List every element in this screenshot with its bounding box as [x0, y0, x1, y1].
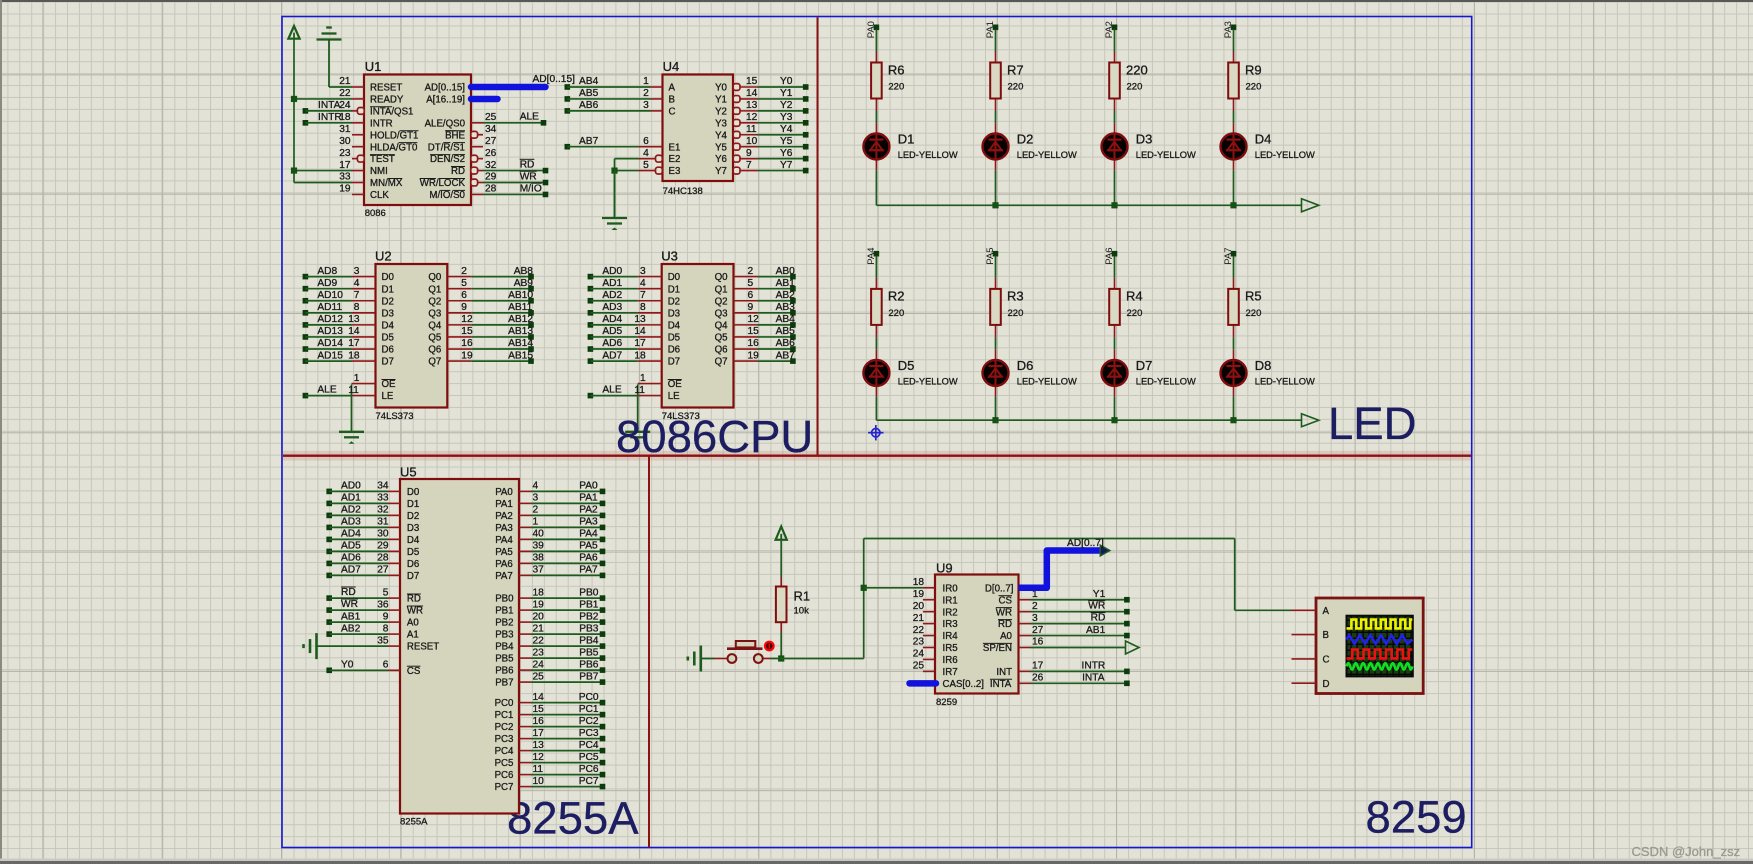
terminals+wires PB0-PB7 (U5 right)	[531, 587, 605, 685]
svg-text:34: 34	[377, 481, 389, 492]
U1 bus pin names	[425, 83, 465, 131]
net label PA2 (rotated)	[1104, 21, 1115, 38]
svg-text:AD13: AD13	[317, 326, 343, 337]
U4 right pins	[715, 76, 758, 177]
svg-text:11: 11	[634, 385, 645, 396]
svg-text:PB5: PB5	[579, 647, 599, 658]
svg-text:C: C	[1323, 655, 1330, 666]
svg-text:AD9: AD9	[317, 278, 337, 289]
led D5 (LED-YELLOW)	[863, 360, 889, 386]
svg-text:D4: D4	[668, 320, 681, 331]
scope trace red	[1347, 650, 1413, 659]
svg-text:AB1: AB1	[1086, 625, 1106, 636]
svg-text:PC3: PC3	[495, 734, 514, 745]
net label ALE (U3)	[602, 385, 621, 396]
D7 value label LED-YELLOW	[1136, 377, 1196, 387]
svg-text:4: 4	[643, 148, 649, 159]
svg-text:17: 17	[634, 338, 646, 349]
svg-text:220: 220	[1127, 82, 1143, 93]
svg-text:IR2: IR2	[943, 607, 958, 618]
svg-text:1: 1	[354, 373, 360, 384]
wire D6 to bus	[995, 397, 997, 421]
svg-text:Y3: Y3	[715, 118, 727, 129]
svg-text:Q0: Q0	[715, 272, 729, 283]
net label ALE	[520, 112, 539, 123]
U3 ref label	[661, 248, 678, 263]
svg-text:PC4: PC4	[495, 746, 514, 757]
ground (U2)	[339, 396, 364, 444]
svg-text:RD: RD	[1091, 613, 1106, 624]
U4 value label 74HC138	[663, 186, 703, 197]
svg-text:17: 17	[533, 728, 545, 739]
switch red indicator dot	[764, 641, 775, 652]
terminal RD	[543, 168, 549, 174]
junction bus row1 col2	[1111, 202, 1117, 208]
power VCC arrow (U1)	[288, 26, 299, 39]
svg-text:PC0: PC0	[495, 698, 514, 709]
svg-text:37: 37	[533, 565, 545, 576]
wire PA4 down	[875, 256, 877, 278]
svg-text:PB0: PB0	[579, 587, 599, 598]
wire INT	[1031, 669, 1130, 675]
wire U4 gnd vertical	[614, 159, 616, 218]
svg-text:26: 26	[485, 148, 497, 159]
svg-text:10k: 10k	[794, 605, 810, 616]
svg-text:AB1: AB1	[776, 278, 796, 289]
svg-text:LED-YELLOW: LED-YELLOW	[1017, 377, 1077, 387]
wire SP/EN	[1031, 647, 1126, 649]
resistor 220 pins	[1114, 52, 1116, 112]
terminal M/IO	[543, 192, 549, 198]
svg-text:R3: R3	[1007, 289, 1024, 304]
switch pins	[714, 658, 770, 660]
wire D7 to bus	[1114, 397, 1116, 421]
net label PA0 (rotated)	[866, 21, 877, 38]
D8 value label LED-YELLOW	[1255, 377, 1315, 387]
svg-text:11: 11	[746, 124, 757, 135]
svg-text:AD1: AD1	[602, 278, 622, 289]
svg-text:PA7: PA7	[495, 571, 513, 582]
svg-text:30: 30	[339, 136, 351, 147]
svg-text:7: 7	[354, 290, 360, 301]
wire R9 to D4	[1233, 111, 1235, 123]
svg-text:5: 5	[461, 278, 467, 289]
U9 left pins IR0-IR7 + CAS	[913, 577, 984, 690]
U5 right pins PB0-PB7	[495, 587, 544, 688]
svg-text:6: 6	[748, 290, 754, 301]
op U1 body (8086 CPU)	[364, 75, 471, 206]
svg-text:PC6: PC6	[495, 770, 514, 781]
led D6 (LED-YELLOW)	[983, 360, 1009, 386]
origin marker (blue crosshair)	[868, 425, 883, 440]
220 ref label	[1126, 62, 1148, 77]
wire PA1 down	[995, 29, 997, 51]
R3 value label	[1008, 308, 1024, 319]
svg-text:35: 35	[377, 635, 389, 646]
svg-text:3: 3	[533, 493, 539, 504]
U9 right pins CS/WR/RD/A0 + wires	[996, 589, 1130, 642]
svg-text:3: 3	[643, 100, 649, 111]
svg-text:15: 15	[461, 326, 473, 337]
U5 control pins RD/WR/A0/A1	[326, 587, 423, 641]
wire PA3 down	[1233, 29, 1235, 51]
wire R7 to D2	[995, 111, 997, 123]
latch U2 body (74LS373)	[376, 264, 448, 408]
svg-text:Y7: Y7	[780, 160, 793, 171]
svg-text:AB2: AB2	[776, 290, 796, 301]
svg-text:U5: U5	[400, 464, 417, 479]
svg-text:Q4: Q4	[428, 320, 442, 331]
D4 value label LED-YELLOW	[1255, 150, 1315, 160]
svg-text:4: 4	[533, 481, 539, 492]
terminal ALE (U3)	[588, 393, 594, 399]
led D3 pins	[1114, 123, 1116, 170]
terminals+wires PC0-PC7 (U5 right)	[531, 692, 605, 790]
svg-text:RD: RD	[451, 166, 465, 177]
svg-text:B: B	[669, 95, 675, 106]
svg-text:AD14: AD14	[317, 338, 343, 349]
svg-text:R2: R2	[888, 289, 905, 304]
bus CAS[0..2] stub	[910, 680, 937, 687]
terminals+wires AD8-AD15	[303, 266, 352, 364]
region label 8259	[1366, 792, 1467, 843]
resistor R1 pins	[780, 577, 782, 633]
svg-text:D0: D0	[668, 272, 681, 283]
svg-text:R1: R1	[794, 589, 811, 604]
svg-text:R4: R4	[1126, 289, 1143, 304]
U9 ref label	[936, 561, 953, 576]
wire switch to rail	[770, 658, 864, 660]
svg-text:AB3: AB3	[776, 302, 796, 313]
svg-text:AD2: AD2	[602, 290, 622, 301]
svg-text:READY: READY	[370, 95, 404, 106]
svg-text:RD: RD	[998, 619, 1012, 630]
svg-text:AD7: AD7	[602, 350, 622, 361]
svg-text:14: 14	[746, 88, 758, 99]
ground (U4)	[602, 171, 627, 230]
svg-text:PA0: PA0	[866, 21, 877, 38]
U5 ref label	[400, 464, 417, 479]
svg-text:PA2: PA2	[495, 511, 513, 522]
svg-text:D3: D3	[668, 308, 680, 319]
svg-text:D5: D5	[898, 358, 915, 373]
terminal PA0	[874, 25, 880, 31]
scope trace green	[1347, 663, 1413, 669]
svg-text:D1: D1	[898, 132, 915, 147]
junction VCC/READY	[291, 96, 297, 102]
svg-text:Q7: Q7	[428, 357, 441, 368]
svg-text:PB2: PB2	[495, 618, 513, 629]
svg-text:Q1: Q1	[428, 284, 441, 295]
pic U9 body (8259)	[935, 575, 1019, 694]
svg-text:20: 20	[533, 611, 545, 622]
svg-text:AB5: AB5	[776, 326, 796, 337]
U9 SP/EN pin	[983, 637, 1044, 654]
wire VCC rail vertical	[293, 39, 295, 183]
svg-text:AD3: AD3	[602, 302, 622, 313]
resistor R3 body	[990, 289, 1001, 325]
svg-text:32: 32	[485, 160, 497, 171]
svg-text:LED: LED	[1328, 398, 1417, 449]
bus arrow AD[0..7]	[1100, 545, 1110, 556]
svg-text:Y1: Y1	[715, 95, 727, 106]
watermark	[1632, 844, 1741, 859]
terminal PA2	[1112, 25, 1118, 31]
svg-text:8255A: 8255A	[400, 816, 428, 827]
svg-text:AD6: AD6	[341, 553, 361, 564]
arrow LED bus row2	[1302, 414, 1319, 427]
svg-text:Q7: Q7	[715, 357, 728, 368]
svg-text:PA2: PA2	[579, 505, 598, 516]
svg-text:D7: D7	[382, 357, 394, 368]
svg-text:12: 12	[533, 752, 545, 763]
svg-text:PC7: PC7	[579, 776, 599, 787]
led D7 (LED-YELLOW)	[1102, 360, 1128, 386]
svg-text:33: 33	[339, 172, 351, 183]
svg-text:PB4: PB4	[495, 642, 514, 653]
svg-text:14: 14	[348, 326, 360, 337]
svg-text:Q5: Q5	[428, 333, 441, 344]
svg-text:CS: CS	[407, 666, 421, 677]
svg-text:D2: D2	[407, 511, 419, 522]
svg-text:AD8: AD8	[317, 266, 337, 277]
svg-text:WR: WR	[407, 606, 423, 617]
svg-text:AD4: AD4	[602, 314, 622, 325]
svg-text:22: 22	[339, 88, 351, 99]
svg-text:U9: U9	[936, 561, 953, 576]
wire net right vertical	[1234, 539, 1236, 611]
svg-text:Q3: Q3	[428, 308, 441, 319]
R3 ref label	[1007, 289, 1024, 304]
svg-text:6: 6	[643, 136, 649, 147]
wire U1 RD	[483, 170, 546, 172]
net label RD	[520, 159, 535, 170]
svg-text:AD0: AD0	[602, 266, 622, 277]
arrow LED bus row1	[1302, 199, 1319, 212]
led D3 (LED-YELLOW)	[1102, 134, 1128, 160]
net label PA3 (rotated)	[1223, 21, 1234, 38]
svg-text:DEN/S2: DEN/S2	[430, 154, 465, 165]
svg-text:D7: D7	[668, 357, 680, 368]
net label INTR	[318, 112, 342, 123]
svg-text:15: 15	[533, 704, 545, 715]
svg-text:AB14: AB14	[508, 338, 533, 349]
svg-text:D5: D5	[382, 333, 394, 344]
svg-text:LED-YELLOW: LED-YELLOW	[898, 150, 958, 160]
ground (U3)	[625, 396, 650, 444]
led D2 pins	[995, 123, 997, 170]
led D4 (LED-YELLOW)	[1221, 134, 1247, 160]
svg-text:OE: OE	[382, 379, 397, 390]
R5 ref label	[1245, 289, 1262, 304]
svg-text:D1: D1	[668, 284, 680, 295]
svg-text:17: 17	[348, 338, 360, 349]
net label PA4 (rotated)	[866, 247, 877, 264]
resistor R7 body	[990, 63, 1001, 99]
svg-text:SP/EN: SP/EN	[983, 643, 1012, 654]
svg-text:HLDA/GT0: HLDA/GT0	[370, 142, 418, 153]
svg-text:Y6: Y6	[780, 148, 793, 159]
svg-text:2: 2	[461, 266, 467, 277]
terminal PA3	[1231, 25, 1237, 31]
svg-text:16: 16	[748, 338, 760, 349]
ppi U5 body (8255A)	[400, 479, 519, 814]
svg-text:1: 1	[640, 373, 646, 384]
svg-text:A0: A0	[1000, 631, 1012, 642]
net label AD[0..15]	[533, 74, 576, 85]
svg-text:U3: U3	[661, 248, 678, 263]
resistor R7 pins	[995, 52, 997, 112]
svg-text:Y0: Y0	[780, 76, 793, 87]
wire U4 E3	[615, 170, 639, 172]
resistor R3 pins	[995, 278, 997, 338]
svg-text:E3: E3	[669, 166, 681, 177]
svg-text:9: 9	[383, 611, 389, 622]
svg-text:28: 28	[377, 553, 389, 564]
U5 RESET pin	[377, 635, 439, 652]
wire PA2 down	[1114, 29, 1116, 51]
svg-text:36: 36	[377, 599, 389, 610]
svg-text:220: 220	[888, 82, 904, 93]
svg-text:25: 25	[533, 671, 545, 682]
svg-text:D6: D6	[382, 345, 394, 356]
svg-text:IR5: IR5	[943, 643, 958, 654]
svg-text:24: 24	[913, 649, 925, 660]
svg-text:19: 19	[461, 350, 473, 361]
U2 left pins D0-D7	[348, 266, 394, 368]
junction bus row2 col3	[1230, 417, 1236, 423]
wire D3 to bus	[1114, 170, 1116, 205]
svg-text:AB9: AB9	[514, 278, 534, 289]
D7 ref label	[1136, 358, 1153, 373]
wire U1 WR	[483, 182, 546, 184]
svg-text:D3: D3	[1136, 132, 1153, 147]
svg-text:HOLD/GT1: HOLD/GT1	[370, 130, 418, 141]
svg-text:PA0: PA0	[579, 481, 598, 492]
wire D5 to bus	[875, 397, 877, 421]
svg-text:AB11: AB11	[508, 302, 532, 313]
svg-text:PC7: PC7	[495, 782, 514, 793]
svg-text:PA7: PA7	[1223, 247, 1234, 264]
svg-text:PB6: PB6	[495, 666, 513, 677]
svg-text:PC1: PC1	[579, 704, 599, 715]
D1 value label LED-YELLOW	[898, 150, 958, 160]
U5 right pins PC0-PC7	[495, 692, 545, 793]
svg-text:18: 18	[348, 350, 360, 361]
svg-text:Q3: Q3	[715, 308, 728, 319]
sheet border (blue frame)	[282, 17, 1472, 848]
wire ALE (U3)	[590, 395, 637, 397]
U1 right pins	[420, 112, 497, 201]
svg-text:AD[0..15]: AD[0..15]	[533, 74, 576, 85]
svg-text:PA0: PA0	[495, 487, 513, 498]
svg-text:INTA: INTA	[990, 679, 1012, 690]
U9 INTA pin	[990, 673, 1044, 690]
svg-text:LE: LE	[382, 391, 394, 402]
svg-text:Y0: Y0	[715, 83, 727, 94]
svg-text:INTR: INTR	[1082, 661, 1106, 672]
ground (U5 RESET)	[304, 633, 389, 659]
svg-text:3: 3	[354, 266, 360, 277]
svg-text:AD15: AD15	[317, 350, 343, 361]
svg-text:RD: RD	[520, 159, 535, 170]
svg-text:2: 2	[748, 266, 754, 277]
junction R1/switch	[778, 655, 784, 661]
svg-text:220: 220	[1246, 308, 1262, 319]
svg-text:OE: OE	[668, 379, 683, 390]
led D7 pins	[1114, 350, 1116, 397]
net label PA6 (rotated)	[1104, 247, 1115, 264]
svg-text:25: 25	[485, 112, 497, 123]
terminal ALE (U2)	[303, 393, 309, 399]
svg-text:Y7: Y7	[715, 166, 727, 177]
oscilloscope pins A-D	[1292, 606, 1330, 690]
svg-text:B: B	[1323, 630, 1329, 641]
svg-text:Q4: Q4	[715, 320, 729, 331]
svg-text:34: 34	[485, 124, 497, 135]
svg-text:19: 19	[748, 350, 760, 361]
U9 D[0..7] pin name	[985, 583, 1014, 594]
svg-text:3: 3	[1032, 613, 1038, 624]
terminals+wires AB4-AB7	[565, 76, 651, 149]
svg-text:D0: D0	[382, 272, 395, 283]
U1 left pins	[339, 76, 418, 201]
svg-text:23: 23	[913, 637, 925, 648]
svg-text:8086CPU: 8086CPU	[616, 411, 813, 462]
svg-text:AD7: AD7	[341, 565, 361, 576]
svg-text:AB10: AB10	[508, 290, 533, 301]
resistor R1 body	[776, 587, 787, 623]
terminals+wires PA0-PA7 (U5 right)	[531, 481, 605, 579]
svg-text:16: 16	[533, 716, 545, 727]
wire net to scope A	[1235, 609, 1292, 611]
svg-text:AD4: AD4	[341, 529, 361, 540]
svg-text:1: 1	[533, 517, 539, 528]
latch U3 body (74LS373)	[662, 264, 734, 408]
net label PA1 (rotated)	[985, 21, 996, 38]
svg-text:PB0: PB0	[495, 594, 514, 605]
R7 value label	[1008, 82, 1024, 93]
svg-text:PC2: PC2	[579, 716, 599, 727]
svg-text:Q6: Q6	[428, 345, 441, 356]
svg-text:A0: A0	[407, 618, 419, 629]
wire U1 M/IO	[483, 193, 546, 195]
svg-text:20: 20	[913, 601, 925, 612]
ground (U1 RESET)	[317, 28, 342, 88]
U4 ref label	[663, 59, 680, 74]
svg-text:15: 15	[748, 326, 760, 337]
svg-text:PC2: PC2	[495, 722, 514, 733]
wire R6 to D1	[875, 111, 877, 123]
wire D2 to bus	[995, 170, 997, 205]
wire Y0 (U5)	[329, 669, 388, 671]
svg-text:A: A	[1323, 606, 1330, 617]
svg-text:D8: D8	[1255, 358, 1272, 373]
svg-text:INT: INT	[996, 667, 1012, 678]
svg-text:16: 16	[1032, 637, 1044, 648]
wire R4 to D7	[1114, 337, 1116, 349]
svg-text:CS: CS	[999, 595, 1013, 606]
R9 value label	[1246, 82, 1262, 93]
svg-text:220: 220	[888, 308, 904, 319]
wire D1 to bus	[875, 170, 877, 205]
svg-text:IR0: IR0	[943, 583, 959, 594]
wire R5 to D8	[1233, 337, 1235, 349]
svg-text:AB4: AB4	[579, 76, 599, 87]
svg-text:PB2: PB2	[579, 611, 599, 622]
svg-text:25: 25	[913, 661, 925, 672]
svg-text:AD3: AD3	[341, 517, 361, 528]
